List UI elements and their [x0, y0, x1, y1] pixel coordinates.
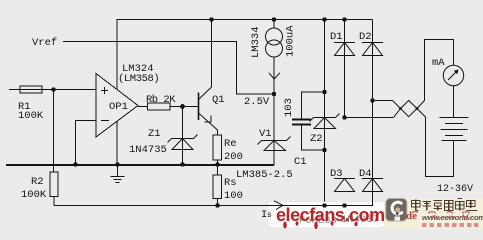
- svg-text:Vref: Vref: [32, 37, 57, 49]
- node Z2 branch top on rail: [322, 17, 326, 21]
- svg-text:LM385-2.5: LM385-2.5: [236, 169, 293, 181]
- svg-text:s: s: [267, 211, 272, 220]
- node D2-D4: [370, 98, 374, 102]
- wire Q1 emitter to Re: [217, 130, 219, 136]
- capacitor C1: [292, 119, 311, 121]
- svg-text:D4: D4: [359, 168, 372, 180]
- zener Z2: [310, 114, 340, 129]
- wire Rb to base: [170, 106, 199, 108]
- svg-text:2.5V: 2.5V: [244, 96, 270, 108]
- wire top supply rail: [117, 20, 373, 90]
- resistor Re: [213, 135, 222, 160]
- node Rs sense: [215, 203, 219, 207]
- wire meter loop: [425, 40, 454, 101]
- svg-text:12-36V: 12-36V: [437, 184, 473, 195]
- node Z1 bottom: [180, 162, 184, 166]
- crossover connector: [393, 101, 427, 118]
- svg-text:200: 200: [224, 151, 243, 163]
- node Re rail: [215, 162, 219, 166]
- wire inverting input feedback: [76, 121, 97, 165]
- node Z2 bottom: [322, 148, 326, 152]
- wire Z2 branch vertical: [324, 20, 326, 206]
- svg-text:103: 103: [283, 98, 295, 117]
- diode D1: [334, 43, 355, 56]
- zener Z1: [168, 135, 198, 150]
- wire rail to Rs: [217, 165, 219, 176]
- wire LM334 top: [273, 20, 275, 29]
- watermark eeworld slogan: [422, 223, 479, 227]
- wire LM334 bottom: [273, 57, 275, 94]
- wire opamp V- to ground: [116, 122, 118, 165]
- svg-text:elecfans.com: elecfans.com: [276, 205, 385, 225]
- svg-text:(LM358): (LM358): [118, 73, 159, 85]
- diode D1 wire: [344, 20, 346, 118]
- svg-text:D1: D1: [330, 31, 343, 43]
- wire R2 bottom: [53, 197, 55, 206]
- node LM334 top on rail: [272, 17, 276, 21]
- svg-text:D2: D2: [359, 31, 372, 43]
- meter mA: [443, 65, 463, 85]
- battery 12-36V: [440, 118, 469, 141]
- wire Re to rail: [217, 160, 219, 165]
- resistor R2: [50, 172, 58, 197]
- watermark eeworld chinese title: [412, 199, 478, 211]
- watermark eeworld logo icon: [386, 199, 407, 222]
- node D1 top on rail: [342, 17, 346, 21]
- diode D2: [362, 43, 383, 56]
- watermark eeworld url: [406, 210, 483, 222]
- svg-text:100: 100: [224, 190, 243, 202]
- node D3 bottom: [342, 203, 346, 207]
- capacitor C1 branch wires: [302, 92, 325, 119]
- node Q1 collector on top rail: [209, 17, 213, 21]
- wire Q1 collector: [211, 20, 213, 88]
- node Z2 top: [322, 90, 326, 94]
- label opamp minus: [101, 120, 109, 122]
- svg-text:R2: R2: [31, 176, 44, 188]
- label opamp plus: [101, 90, 108, 92]
- zener V1: [258, 137, 291, 151]
- transistor Q1: [199, 87, 218, 130]
- svg-text:Re: Re: [224, 138, 237, 150]
- wire Z1 vertical: [182, 107, 184, 165]
- ground: [117, 165, 119, 177]
- svg-text:de: de: [406, 210, 417, 222]
- label LM334 current arrow: [269, 73, 280, 79]
- watermark elecfans.com red text: [276, 205, 385, 229]
- svg-text:LM334: LM334: [250, 26, 262, 58]
- wire divider vertical: [53, 90, 55, 173]
- watermark white box elecfans: [268, 202, 385, 228]
- svg-text:Rs: Rs: [224, 177, 237, 189]
- svg-text:OP1: OP1: [109, 101, 128, 113]
- wire R1 input: [9, 89, 96, 91]
- wire Vref: [63, 42, 274, 95]
- label Is arrow: [274, 201, 283, 210]
- wire V1 vertical: [273, 94, 275, 165]
- svg-text:C1: C1: [294, 156, 307, 168]
- svg-text:100uA: 100uA: [285, 25, 297, 57]
- svg-text:100K: 100K: [18, 110, 44, 122]
- node R1 junction: [51, 87, 55, 91]
- wire loop upper: [373, 100, 393, 102]
- watermark eeworld panel: [384, 199, 483, 229]
- svg-text:Z1: Z1: [148, 128, 161, 140]
- wire battery loop bottom: [426, 118, 454, 177]
- svg-text:V1: V1: [259, 128, 272, 140]
- wire loop lower: [345, 117, 394, 119]
- node 2.5V: [272, 92, 276, 96]
- current source LM334: [266, 28, 283, 57]
- node opamp ground: [115, 162, 119, 166]
- svg-text:1N4735: 1N4735: [129, 144, 167, 156]
- svg-text:Z2: Z2: [310, 133, 323, 145]
- resistor R1: [20, 86, 42, 93]
- op-amp U1 triangle: [96, 74, 138, 138]
- svg-text:D3: D3: [330, 168, 343, 180]
- svg-text:mA: mA: [432, 57, 445, 69]
- ground rail thick: [6, 164, 274, 166]
- svg-text:Q1: Q1: [212, 94, 225, 106]
- node feedback on ground rail: [73, 162, 77, 166]
- diode D2 wire: [372, 20, 374, 206]
- diode D4: [362, 179, 383, 192]
- node Z2 branch bottom: [322, 203, 326, 207]
- resistor Rs: [213, 175, 222, 199]
- resistor Rb: [148, 103, 171, 110]
- wire current sense bottom: [54, 192, 373, 206]
- svg-text:100K: 100K: [21, 189, 47, 201]
- wire Rs bottom: [217, 199, 219, 206]
- node base junction: [180, 104, 185, 109]
- node D1-D3: [342, 115, 346, 119]
- svg-text:Rb 2K: Rb 2K: [146, 94, 176, 106]
- watermark red underline marks: [412, 212, 470, 214]
- wire meter to battery: [453, 86, 455, 118]
- diode D3: [334, 179, 355, 192]
- wire opamp output: [138, 106, 148, 108]
